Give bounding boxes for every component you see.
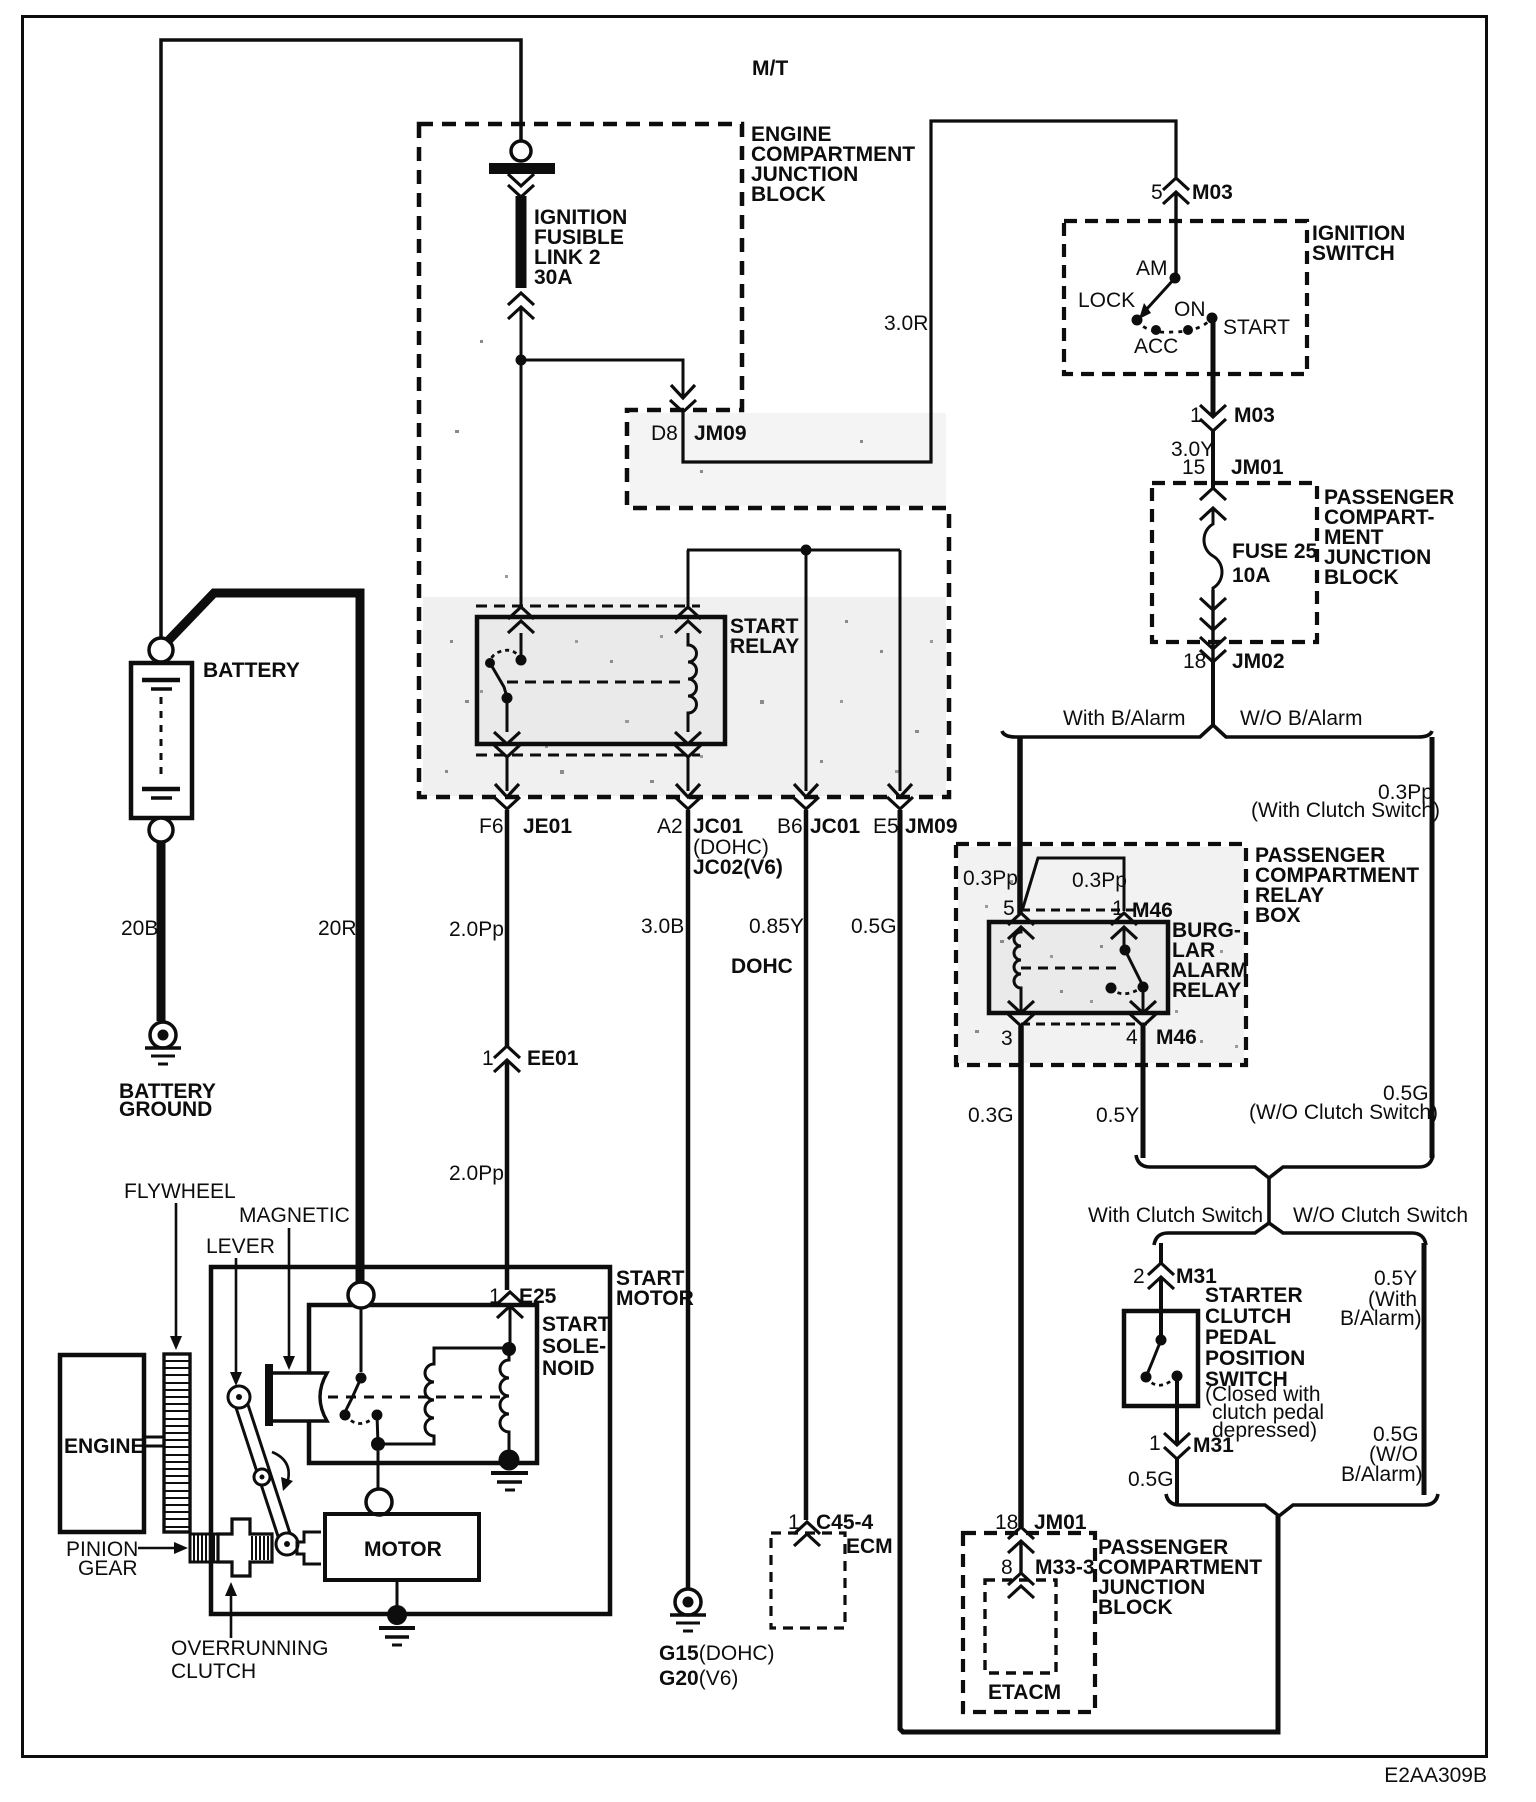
- svg-text:BOX: BOX: [1255, 904, 1301, 927]
- wire E5 drop: [899, 550, 902, 791]
- wire 0.5G E5 down and across bottom: [900, 810, 1278, 1732]
- svg-text:0.85Y: 0.85Y: [749, 915, 804, 938]
- wire w/o b/alarm branch: [1430, 737, 1435, 1158]
- svg-text:LEVER: LEVER: [206, 1235, 275, 1258]
- wire E25 into solenoid: [509, 1306, 512, 1349]
- svg-text:20R: 20R: [318, 917, 357, 940]
- burglar alarm relay dashed box: [1021, 909, 1143, 912]
- wire START down: [1211, 318, 1216, 417]
- pinion gear: [190, 1534, 218, 1562]
- wire solenoid to motor terminal: [377, 1451, 380, 1489]
- svg-text:3.0R: 3.0R: [884, 312, 928, 335]
- svg-text:C45-4: C45-4: [816, 1511, 874, 1534]
- svg-text:F6: F6: [479, 815, 504, 838]
- svg-text:2: 2: [1133, 1265, 1145, 1288]
- solenoid ground: [499, 1450, 520, 1471]
- fuse 25 10A: [1204, 508, 1222, 596]
- wire B6 drop: [805, 550, 808, 791]
- svg-text:ON: ON: [1174, 298, 1206, 321]
- flywheel ring gear: [164, 1354, 190, 1532]
- svg-text:JE01: JE01: [523, 815, 572, 838]
- ENGINE box: [60, 1355, 144, 1532]
- wire JM02 to split: [1211, 662, 1215, 725]
- svg-text:FLYWHEEL: FLYWHEEL: [124, 1180, 236, 1203]
- starter clutch pedal position switch box: [1124, 1311, 1198, 1406]
- svg-text:0.3Pp: 0.3Pp: [963, 867, 1018, 890]
- ignition switch detent arc: [1137, 318, 1212, 332]
- connector F6 JE01: [495, 784, 519, 797]
- start relay dashed interior link: [507, 681, 681, 684]
- svg-text:E5: E5: [873, 815, 899, 838]
- svg-text:W/O Clutch Switch: W/O Clutch Switch: [1293, 1204, 1468, 1227]
- connector B6 JC01: [794, 784, 818, 797]
- connector 2 M31: [1148, 1263, 1174, 1275]
- svg-text:GROUND: GROUND: [119, 1098, 212, 1121]
- overrunning clutch: [218, 1519, 272, 1576]
- svg-text:With B/Alarm: With B/Alarm: [1063, 707, 1186, 730]
- wire 2.0Pp F6 down: [505, 810, 510, 1046]
- wire with b/alarm branch 0.3Pp: [1017, 737, 1023, 914]
- start relay switch: [520, 633, 523, 660]
- node junction dot: [516, 355, 527, 366]
- svg-text:JC02(V6): JC02(V6): [693, 856, 783, 879]
- node START: [1207, 313, 1218, 324]
- svg-text:BLOCK: BLOCK: [751, 183, 826, 206]
- wire 0.5Y pin4 down to merge: [1141, 1026, 1146, 1158]
- svg-text:START: START: [542, 1313, 611, 1336]
- battery bottom terminal circle: [149, 818, 173, 842]
- wire thick battery+ to 20R: [167, 593, 360, 1284]
- burglar relay pin 5 chevrons: [1008, 913, 1034, 925]
- start relay coil top chevrons: [675, 607, 701, 619]
- svg-text:0.5Y: 0.5Y: [1374, 1267, 1417, 1290]
- burglar relay coil: [1014, 927, 1021, 1013]
- wire battery+ to fusible link: [161, 40, 521, 649]
- wire merge brace bottom: [1166, 1494, 1438, 1516]
- svg-text:NOID: NOID: [542, 1357, 595, 1380]
- passenger compartment junction block dashed box: [1152, 483, 1317, 642]
- wire split brace clutch switch: [1154, 1223, 1426, 1245]
- start solenoid box: [309, 1305, 537, 1463]
- connector E5 JM09: [888, 784, 912, 797]
- wire with clutch switch branch: [1159, 1243, 1163, 1263]
- svg-text:CLUTCH: CLUTCH: [1205, 1305, 1291, 1328]
- svg-text:M46: M46: [1156, 1026, 1197, 1049]
- svg-text:START: START: [1223, 316, 1290, 339]
- ignition fusible link 2 30A: [511, 141, 531, 161]
- wire 3.0Y: [1211, 431, 1215, 488]
- svg-text:1: 1: [788, 1511, 800, 1534]
- connector 15 JM01: [1200, 488, 1226, 500]
- connector A2 JC01: [676, 784, 700, 797]
- node AM: [1170, 273, 1181, 284]
- battery: [131, 663, 192, 818]
- svg-text:B6: B6: [777, 815, 803, 838]
- solenoid hold-in coil: [378, 1348, 503, 1444]
- svg-text:OVERRUNNING: OVERRUNNING: [171, 1637, 329, 1660]
- battery ground: [145, 1022, 181, 1064]
- wire 0.85Y B6 down to ECM: [804, 810, 809, 1520]
- wire 2.0Pp to E25: [505, 1060, 510, 1290]
- svg-text:E2AA309B: E2AA309B: [1384, 1764, 1487, 1787]
- svg-text:JM02: JM02: [1232, 650, 1285, 673]
- burglar relay pin 3 chevrons: [1008, 1001, 1034, 1013]
- node ON: [1183, 325, 1193, 335]
- connector 18 JM02: [1200, 637, 1226, 649]
- svg-text:20B: 20B: [121, 917, 158, 940]
- ignition switch dashed box: [1064, 221, 1307, 374]
- clutch pedal switch contacts: [1156, 1335, 1167, 1346]
- svg-text:M31: M31: [1193, 1434, 1234, 1457]
- start relay pin bottom-left chevrons: [494, 732, 520, 744]
- svg-text:JM09: JM09: [905, 815, 958, 838]
- svg-text:STARTER: STARTER: [1205, 1284, 1303, 1307]
- svg-text:1: 1: [482, 1047, 494, 1070]
- wire junction to D8 JM09: [521, 360, 683, 398]
- svg-text:5: 5: [1151, 181, 1163, 204]
- connector 8 M33-3: [1008, 1573, 1034, 1585]
- svg-text:0.3G: 0.3G: [968, 1104, 1014, 1127]
- wire 3.0B A2 down to G15 ground: [686, 810, 691, 1589]
- svg-text:30A: 30A: [534, 266, 573, 289]
- svg-text:JM09: JM09: [694, 422, 747, 445]
- start relay solid box: [477, 617, 725, 744]
- svg-text:A2: A2: [657, 815, 683, 838]
- svg-text:4: 4: [1126, 1026, 1138, 1049]
- motor ground: [396, 1580, 399, 1608]
- passenger compartment junction block bottom dashed box: [963, 1533, 1095, 1712]
- svg-text:M03: M03: [1192, 181, 1233, 204]
- svg-text:15: 15: [1182, 456, 1205, 479]
- svg-text:18: 18: [995, 1511, 1018, 1534]
- svg-text:B/Alarm): B/Alarm): [1340, 1307, 1422, 1330]
- svg-text:(With Clutch Switch): (With Clutch Switch): [1251, 799, 1440, 822]
- svg-text:LOCK: LOCK: [1078, 289, 1135, 312]
- solenoid switch: [360, 1308, 363, 1372]
- passenger compartment relay box dashed: [956, 844, 1246, 1065]
- svg-text:G20(V6): G20(V6): [659, 1667, 738, 1690]
- connector 18 JM01 bottom: [1008, 1527, 1034, 1539]
- svg-text:DOHC: DOHC: [731, 955, 793, 978]
- wire w/o clutch switch branch: [1422, 1243, 1427, 1495]
- svg-text:AM: AM: [1136, 257, 1168, 280]
- start motor outer box: [211, 1267, 610, 1614]
- svg-text:BLOCK: BLOCK: [1324, 566, 1399, 589]
- svg-text:FUSE 25: FUSE 25: [1232, 540, 1318, 563]
- solenoid pull-in coil: [500, 1349, 509, 1454]
- lever arm: [234, 1400, 282, 1547]
- wire 0.3G pin3 down to JM01: [1018, 1026, 1024, 1527]
- svg-text:JM01: JM01: [1231, 456, 1284, 479]
- svg-text:M33-3: M33-3: [1035, 1556, 1095, 1579]
- svg-text:3.0B: 3.0B: [641, 915, 684, 938]
- svg-text:W/O B/Alarm: W/O B/Alarm: [1240, 707, 1363, 730]
- wire merge to split stub: [1267, 1178, 1271, 1223]
- svg-text:1: 1: [1149, 1432, 1161, 1455]
- burglar alarm relay solid box: [989, 922, 1168, 1013]
- svg-text:POSITION: POSITION: [1205, 1347, 1305, 1370]
- solenoid battery terminal circle: [348, 1282, 374, 1308]
- svg-text:ETACM: ETACM: [988, 1681, 1061, 1704]
- connector 1 C45-4: [794, 1522, 820, 1534]
- svg-text:EE01: EE01: [527, 1047, 579, 1070]
- engine compartment junction block dashed outline: [419, 124, 949, 797]
- svg-text:5: 5: [1003, 897, 1015, 920]
- lever rotation arrow: [272, 1452, 289, 1484]
- connector 5 M03: [1163, 178, 1189, 190]
- connector 1 M31: [1164, 1433, 1190, 1445]
- svg-text:GEAR: GEAR: [78, 1557, 138, 1580]
- solenoid plunger magnet: [265, 1364, 273, 1426]
- engine shaft: [144, 1436, 164, 1439]
- svg-text:MOTOR: MOTOR: [364, 1538, 442, 1561]
- ECM dashed box: [771, 1533, 845, 1628]
- svg-text:2.0Pp: 2.0Pp: [449, 918, 504, 941]
- ground G15/G20: [670, 1589, 706, 1631]
- svg-text:RELAY: RELAY: [1172, 979, 1241, 1002]
- svg-text:MOTOR: MOTOR: [616, 1287, 694, 1310]
- svg-text:ENGINE: ENGINE: [64, 1435, 145, 1458]
- battery top terminal circle: [149, 638, 173, 662]
- svg-text:0.5G: 0.5G: [851, 915, 897, 938]
- svg-text:MAGNETIC: MAGNETIC: [239, 1204, 350, 1227]
- wire coil top feed: [687, 550, 690, 606]
- svg-text:ACC: ACC: [1134, 335, 1178, 358]
- svg-text:SWITCH: SWITCH: [1312, 242, 1395, 265]
- node LOCK: [1132, 315, 1143, 326]
- svg-text:G15(DOHC): G15(DOHC): [659, 1642, 775, 1665]
- wire fusible link down to start relay: [520, 307, 523, 606]
- svg-text:JC01: JC01: [693, 815, 744, 838]
- svg-text:1: 1: [1190, 404, 1202, 427]
- svg-text:ECM: ECM: [846, 1535, 893, 1558]
- connector 1 M03: [1200, 405, 1226, 417]
- svg-text:BATTERY: BATTERY: [203, 659, 300, 682]
- start relay coil: [688, 633, 697, 732]
- svg-text:PEDAL: PEDAL: [1205, 1326, 1276, 1349]
- svg-text:SOLE-: SOLE-: [542, 1335, 606, 1358]
- svg-text:0.5G: 0.5G: [1128, 1468, 1174, 1491]
- svg-text:RELAY: RELAY: [730, 635, 799, 658]
- start relay dashed box: [476, 605, 700, 608]
- svg-text:3: 3: [1001, 1027, 1013, 1050]
- svg-text:(W/O Clutch Switch): (W/O Clutch Switch): [1249, 1101, 1438, 1124]
- burglar relay switch: [1123, 927, 1126, 950]
- svg-text:18: 18: [1183, 650, 1206, 673]
- wire M03 into ignition switch: [1174, 192, 1177, 278]
- svg-text:CLUTCH: CLUTCH: [171, 1660, 256, 1683]
- start relay pin top-left chevrons: [508, 607, 534, 619]
- svg-text:10A: 10A: [1232, 564, 1271, 587]
- svg-text:M03: M03: [1234, 404, 1275, 427]
- wire JM01 to M33-3: [1019, 1541, 1022, 1573]
- drive fork: [297, 1532, 321, 1564]
- svg-text:JC01: JC01: [810, 815, 861, 838]
- solenoid axis dashed line: [274, 1396, 500, 1399]
- wire 0.5G down to merge: [1175, 1459, 1179, 1505]
- svg-text:JM01: JM01: [1034, 1511, 1087, 1534]
- svg-text:BLOCK: BLOCK: [1098, 1596, 1173, 1619]
- MOTOR box: [325, 1514, 479, 1580]
- node dot on coil feed: [801, 545, 812, 556]
- wire merge brace clutch: [1136, 1155, 1433, 1178]
- burglar relay pin 1 chevrons: [1111, 913, 1137, 925]
- svg-text:With Clutch Switch: With Clutch Switch: [1088, 1204, 1263, 1227]
- svg-text:B/Alarm): B/Alarm): [1341, 1463, 1423, 1486]
- connector D8 JM09: [671, 385, 695, 398]
- ignition switch lever: [1145, 278, 1175, 311]
- svg-text:2.0Pp: 2.0Pp: [449, 1162, 504, 1185]
- wire split brace b-alarm: [1002, 725, 1432, 737]
- burglar relay dashed interior link: [1021, 967, 1120, 970]
- connector 1 E25: [497, 1292, 523, 1304]
- node on E25 wire: [502, 1342, 516, 1356]
- solenoid junction node: [371, 1437, 385, 1451]
- svg-text:M/T: M/T: [752, 57, 788, 80]
- wire into clutch pedal switch: [1159, 1277, 1163, 1340]
- burglar relay pin 4 chevrons: [1130, 1001, 1156, 1013]
- svg-text:8: 8: [1001, 1556, 1013, 1579]
- scan-grey shading inside junction blocks: [423, 413, 1244, 1063]
- wire 0.3Pp jumper to pin 1: [1022, 858, 1124, 911]
- connector EE01: [494, 1046, 520, 1058]
- node ACC: [1151, 325, 1161, 335]
- wire 20B: [157, 842, 166, 1021]
- wire 3.0R from JM09 up to ignition switch: [683, 121, 1176, 462]
- svg-text:0.5Y: 0.5Y: [1096, 1104, 1139, 1127]
- svg-text:0.3Pp: 0.3Pp: [1072, 869, 1127, 892]
- ETACM dashed box: [985, 1580, 1056, 1673]
- svg-text:M46: M46: [1132, 899, 1173, 922]
- svg-text:D8: D8: [651, 422, 678, 445]
